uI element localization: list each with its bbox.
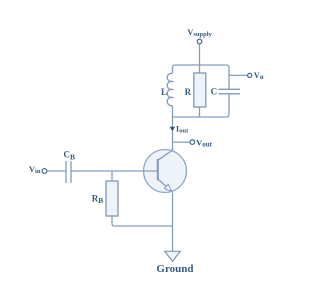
capacitor C xyxy=(219,89,241,94)
ground xyxy=(165,251,181,261)
wire RB upper stub xyxy=(111,171,113,181)
terminal Vsupply xyxy=(197,39,202,44)
svg-text:Iout: Iout xyxy=(176,123,189,134)
wire right branch upper stub xyxy=(228,68,230,90)
wire tank top rail xyxy=(173,65,230,68)
svg-text:RB: RB xyxy=(92,194,104,206)
wire RB bottom return xyxy=(112,216,173,226)
svg-text:CB: CB xyxy=(64,150,76,162)
wire right branch lower stub xyxy=(227,94,230,117)
wire left branch upper stub xyxy=(172,68,174,74)
inductor L xyxy=(167,73,172,105)
wire Vo tap xyxy=(229,74,248,76)
wire Vsupply to tank top rail xyxy=(199,44,201,65)
wire CB to base xyxy=(71,170,158,172)
svg-text:Ground: Ground xyxy=(156,263,193,275)
terminal Vo xyxy=(248,73,252,77)
transistor Q1 emitter lead xyxy=(158,179,173,192)
current arrow Iout xyxy=(170,127,176,131)
terminal Vout xyxy=(190,140,195,145)
transistor Q1 base bar xyxy=(157,159,159,181)
svg-text:Vout: Vout xyxy=(196,138,213,149)
svg-text:Vin: Vin xyxy=(29,164,41,175)
terminal Vin xyxy=(42,169,47,174)
capacitor CB xyxy=(66,161,71,183)
wire Vout tap xyxy=(173,141,191,143)
wire collector vertical xyxy=(172,117,174,150)
svg-text:C: C xyxy=(211,87,218,97)
wire emitter down xyxy=(172,193,174,252)
svg-text:L: L xyxy=(161,87,167,97)
wire middle branch upper stub xyxy=(199,65,201,73)
wire tank bottom rail xyxy=(173,116,227,118)
wire middle branch lower stub xyxy=(199,107,201,117)
resistor RB xyxy=(106,181,118,216)
wire Vin to CB xyxy=(47,170,66,172)
svg-text:Vsupply: Vsupply xyxy=(187,27,212,38)
resistor R xyxy=(194,73,206,107)
svg-text:R: R xyxy=(185,87,192,97)
transistor Q1 collector lead xyxy=(158,150,173,160)
wire left branch lower stub xyxy=(172,106,174,118)
svg-text:Vo: Vo xyxy=(254,70,264,81)
transistor Q1 emitter arrow xyxy=(164,184,171,191)
transistor Q1 body xyxy=(144,150,187,193)
